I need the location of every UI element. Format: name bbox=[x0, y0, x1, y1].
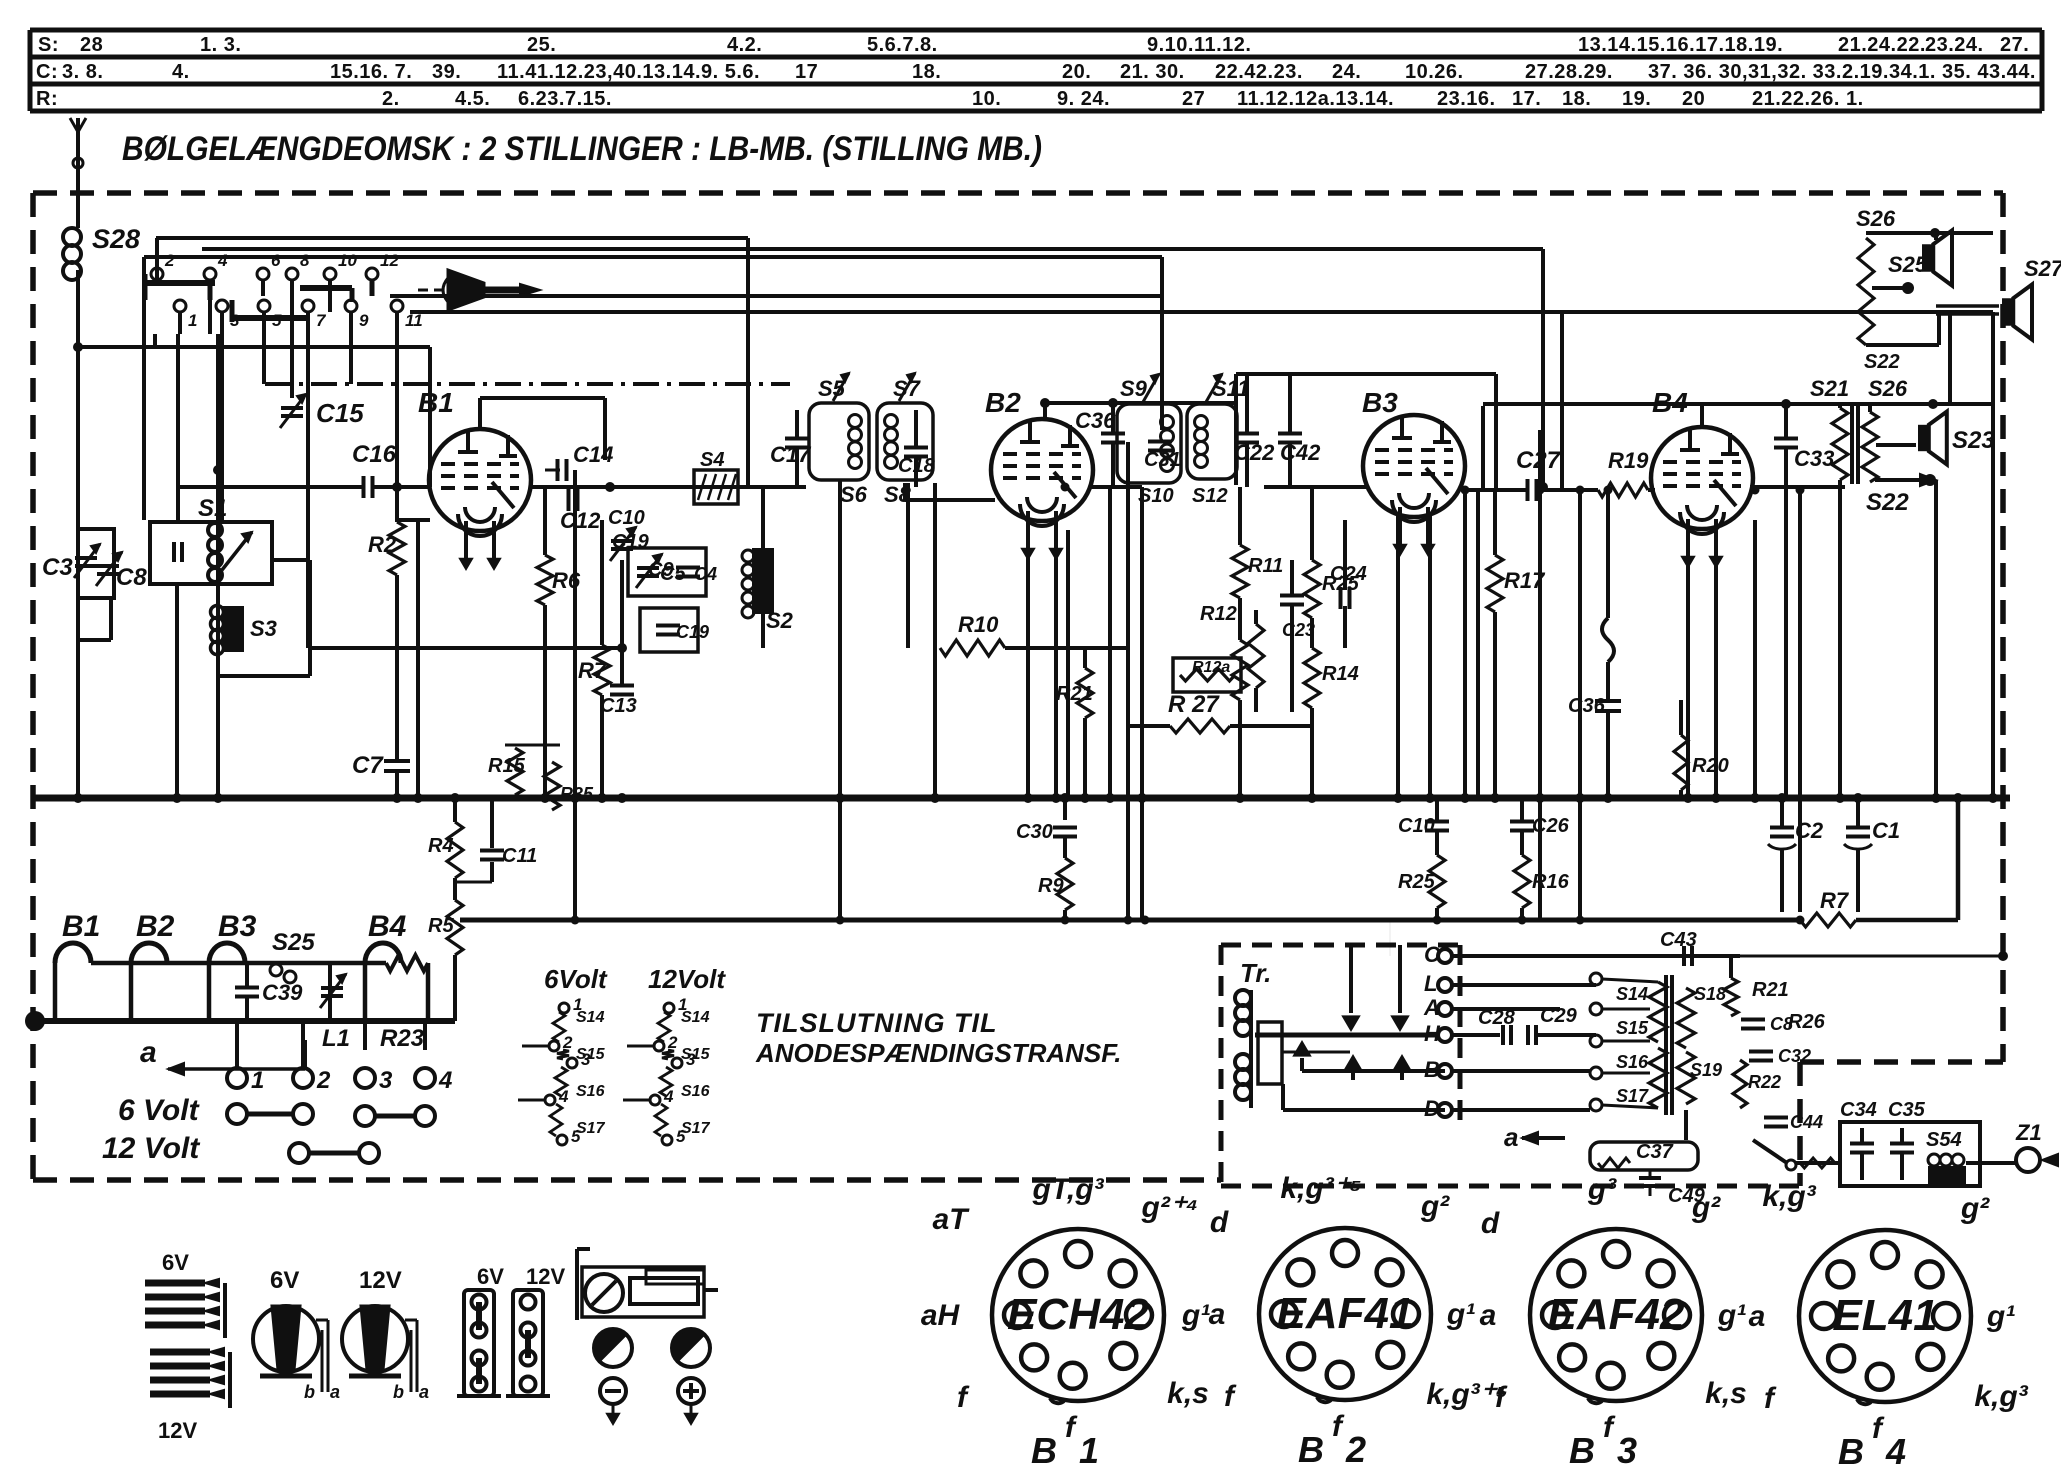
svg-text:15.16. 7.: 15.16. 7. bbox=[330, 61, 412, 83]
svg-text:20.: 20. bbox=[1062, 61, 1091, 83]
svg-text:k,g³: k,g³ bbox=[1974, 1380, 2028, 1413]
svg-text:S16: S16 bbox=[576, 1083, 605, 1100]
svg-text:C3: C3 bbox=[42, 554, 73, 581]
svg-text:a: a bbox=[330, 1382, 340, 1402]
svg-text:25.: 25. bbox=[527, 34, 556, 56]
svg-text:C31: C31 bbox=[1144, 449, 1181, 471]
svg-text:C39: C39 bbox=[262, 980, 303, 1005]
svg-text:d: d bbox=[1210, 1206, 1229, 1239]
svg-text:C12: C12 bbox=[560, 508, 601, 533]
svg-text:6: 6 bbox=[271, 251, 281, 270]
svg-text:S28: S28 bbox=[92, 224, 140, 254]
svg-text:aH: aH bbox=[921, 1299, 961, 1332]
svg-text:S16: S16 bbox=[681, 1083, 710, 1100]
svg-text:C8: C8 bbox=[116, 564, 147, 591]
svg-text:B 2: B 2 bbox=[1298, 1429, 1372, 1470]
svg-text:R7: R7 bbox=[578, 658, 608, 683]
svg-text:4.2.: 4.2. bbox=[727, 34, 762, 56]
svg-text:7: 7 bbox=[316, 311, 327, 330]
svg-text:S6: S6 bbox=[840, 482, 868, 507]
svg-text:R21: R21 bbox=[1752, 979, 1789, 1001]
svg-text:C4: C4 bbox=[694, 564, 717, 584]
svg-text:Tr.: Tr. bbox=[1240, 958, 1271, 988]
svg-text:S7: S7 bbox=[893, 376, 922, 401]
svg-text:C19: C19 bbox=[676, 622, 709, 642]
svg-text:6 Volt: 6 Volt bbox=[118, 1094, 201, 1127]
svg-text:C24: C24 bbox=[1330, 563, 1367, 585]
svg-text:21.24.22.: 21.24.22. bbox=[1838, 34, 1926, 56]
svg-text:39.: 39. bbox=[432, 61, 461, 83]
svg-text:R16: R16 bbox=[1532, 871, 1570, 893]
svg-text:S15: S15 bbox=[681, 1046, 711, 1063]
svg-text:R:: R: bbox=[36, 88, 58, 110]
svg-text:B 1: B 1 bbox=[1031, 1430, 1105, 1471]
svg-text:g²: g² bbox=[1691, 1191, 1721, 1224]
svg-text:S25: S25 bbox=[1888, 252, 1928, 277]
svg-text:R 27: R 27 bbox=[1168, 691, 1220, 718]
svg-text:B2: B2 bbox=[985, 387, 1021, 418]
svg-text:C:: C: bbox=[36, 61, 58, 83]
svg-text:S14: S14 bbox=[681, 1009, 710, 1026]
svg-text:g²: g² bbox=[1960, 1192, 1990, 1225]
svg-text:B 4: B 4 bbox=[1838, 1431, 1912, 1472]
svg-text:R12a: R12a bbox=[1192, 659, 1230, 676]
svg-text:3: 3 bbox=[379, 1067, 393, 1094]
svg-text:S9: S9 bbox=[1120, 376, 1148, 401]
svg-text:a: a bbox=[140, 1036, 157, 1069]
svg-text:B 3: B 3 bbox=[1569, 1430, 1643, 1471]
svg-text:23.24.: 23.24. bbox=[1925, 34, 1984, 56]
svg-text:R25: R25 bbox=[1398, 871, 1436, 893]
svg-text:S23: S23 bbox=[1952, 427, 1995, 454]
svg-text:C33: C33 bbox=[1794, 446, 1834, 471]
svg-text:27: 27 bbox=[1182, 88, 1205, 110]
svg-text:C32: C32 bbox=[1778, 1046, 1811, 1066]
svg-text:a: a bbox=[1749, 1300, 1766, 1333]
svg-text:R9: R9 bbox=[1038, 875, 1064, 897]
svg-text:EAF41: EAF41 bbox=[1277, 1289, 1414, 1338]
svg-text:S17: S17 bbox=[1616, 1086, 1649, 1106]
svg-text:C22: C22 bbox=[1234, 440, 1275, 465]
svg-text:11.12.12a.13.14.: 11.12.12a.13.14. bbox=[1237, 88, 1394, 110]
svg-text:C10: C10 bbox=[608, 507, 645, 529]
svg-text:20: 20 bbox=[1682, 88, 1705, 110]
svg-text:10.: 10. bbox=[972, 88, 1001, 110]
svg-text:17: 17 bbox=[795, 61, 818, 83]
svg-text:a: a bbox=[1504, 1122, 1518, 1152]
svg-text:g¹: g¹ bbox=[1717, 1299, 1746, 1332]
svg-text:R2: R2 bbox=[368, 532, 397, 557]
svg-text:k,s: k,s bbox=[1167, 1377, 1209, 1410]
svg-text:B3: B3 bbox=[1362, 387, 1398, 418]
svg-text:Z1: Z1 bbox=[2015, 1120, 2042, 1145]
svg-text:4: 4 bbox=[438, 1067, 452, 1094]
svg-text:S5: S5 bbox=[818, 376, 846, 401]
svg-text:C44: C44 bbox=[1790, 1112, 1823, 1132]
svg-text:6.23.7.15.: 6.23.7.15. bbox=[518, 88, 612, 110]
svg-text:C7: C7 bbox=[352, 752, 384, 779]
svg-text:S14: S14 bbox=[1616, 984, 1648, 1004]
svg-text:5.6.7.8.: 5.6.7.8. bbox=[867, 34, 938, 56]
svg-text:12V: 12V bbox=[526, 1264, 565, 1289]
svg-text:S17: S17 bbox=[681, 1120, 711, 1137]
svg-text:S22: S22 bbox=[1866, 489, 1909, 516]
svg-text:g³: g³ bbox=[1587, 1173, 1617, 1206]
svg-text:18.: 18. bbox=[1562, 88, 1591, 110]
svg-text:a: a bbox=[1209, 1298, 1226, 1331]
svg-text:2: 2 bbox=[316, 1067, 331, 1094]
svg-text:S:: S: bbox=[38, 34, 59, 56]
svg-text:S19: S19 bbox=[1690, 1060, 1722, 1080]
svg-text:C14: C14 bbox=[573, 442, 613, 467]
svg-text:R22: R22 bbox=[1748, 1072, 1781, 1092]
svg-text:19.: 19. bbox=[1622, 88, 1651, 110]
svg-text:C29: C29 bbox=[1540, 1005, 1578, 1027]
svg-text:17.: 17. bbox=[1512, 88, 1541, 110]
svg-text:S1: S1 bbox=[198, 495, 227, 522]
svg-text:S2: S2 bbox=[766, 608, 794, 633]
svg-text:R15: R15 bbox=[488, 755, 526, 777]
svg-text:C36: C36 bbox=[1568, 695, 1606, 717]
svg-text:R35: R35 bbox=[560, 784, 594, 804]
svg-text:4.: 4. bbox=[172, 61, 190, 83]
svg-text:3. 8.: 3. 8. bbox=[62, 61, 103, 83]
svg-text:28: 28 bbox=[80, 34, 103, 56]
svg-text:a: a bbox=[1480, 1299, 1497, 1332]
svg-text:C: C bbox=[1424, 942, 1441, 967]
svg-text:R23: R23 bbox=[380, 1025, 425, 1052]
svg-text:S11: S11 bbox=[1212, 376, 1250, 401]
svg-text:A: A bbox=[1423, 995, 1440, 1020]
svg-text:k,g³⁺⁵: k,g³⁺⁵ bbox=[1280, 1172, 1361, 1205]
svg-text:EL41: EL41 bbox=[1832, 1291, 1937, 1340]
svg-text:g²: g² bbox=[1420, 1190, 1450, 1223]
svg-text:C10: C10 bbox=[1398, 815, 1435, 837]
svg-text:C30: C30 bbox=[1016, 821, 1053, 843]
svg-text:S15: S15 bbox=[576, 1046, 606, 1063]
svg-text:18.: 18. bbox=[912, 61, 941, 83]
svg-text:BØLGELÆNGDEOMSK : 2 STILLINGE: BØLGELÆNGDEOMSK : 2 STILLINGER : LB-MB. … bbox=[122, 130, 1042, 168]
svg-text:b: b bbox=[304, 1382, 315, 1402]
svg-text:9. 24.: 9. 24. bbox=[1057, 88, 1110, 110]
svg-text:g¹: g¹ bbox=[1181, 1299, 1210, 1332]
svg-text:C26: C26 bbox=[1532, 815, 1570, 837]
svg-text:27.: 27. bbox=[2000, 34, 2029, 56]
svg-text:S22: S22 bbox=[1864, 351, 1900, 373]
svg-text:12V: 12V bbox=[158, 1418, 197, 1443]
svg-text:S54: S54 bbox=[1926, 1129, 1962, 1151]
svg-text:4.5.: 4.5. bbox=[455, 88, 490, 110]
svg-text:L: L bbox=[1424, 971, 1437, 996]
svg-text:R10: R10 bbox=[958, 612, 999, 637]
svg-text:B2: B2 bbox=[136, 910, 175, 943]
svg-text:C42: C42 bbox=[1280, 440, 1321, 465]
svg-text:S17: S17 bbox=[576, 1120, 606, 1137]
svg-text:S25: S25 bbox=[272, 929, 315, 956]
svg-text:B1: B1 bbox=[62, 910, 100, 943]
svg-text:2.: 2. bbox=[382, 88, 400, 110]
svg-text:L1: L1 bbox=[322, 1025, 350, 1052]
svg-text:24.: 24. bbox=[1332, 61, 1361, 83]
svg-text:S15: S15 bbox=[1616, 1018, 1649, 1038]
svg-text:2: 2 bbox=[562, 1033, 573, 1052]
svg-text:2: 2 bbox=[164, 251, 175, 270]
svg-text:13.14.15.16.17.18.19.: 13.14.15.16.17.18.19. bbox=[1578, 34, 1783, 56]
svg-text:21.22.26. 1.: 21.22.26. 1. bbox=[1752, 88, 1864, 110]
svg-text:4: 4 bbox=[558, 1087, 569, 1106]
svg-text:C13: C13 bbox=[600, 695, 637, 717]
svg-text:aT: aT bbox=[932, 1203, 970, 1236]
svg-text:C35: C35 bbox=[1888, 1099, 1926, 1121]
svg-text:C36: C36 bbox=[1075, 408, 1116, 433]
svg-text:12V: 12V bbox=[359, 1267, 402, 1294]
svg-text:S21: S21 bbox=[1810, 376, 1849, 401]
svg-text:4: 4 bbox=[663, 1087, 674, 1106]
svg-text:g²⁺⁴: g²⁺⁴ bbox=[1141, 1191, 1199, 1224]
svg-text:R12: R12 bbox=[1200, 603, 1237, 625]
svg-text:S16: S16 bbox=[1616, 1052, 1649, 1072]
svg-text:R14: R14 bbox=[1322, 663, 1359, 685]
svg-text:R5: R5 bbox=[428, 915, 454, 937]
svg-text:27.28.29.: 27.28.29. bbox=[1525, 61, 1613, 83]
svg-text:S26: S26 bbox=[1856, 206, 1896, 231]
svg-text:6V: 6V bbox=[477, 1264, 504, 1289]
svg-text:R4: R4 bbox=[428, 835, 454, 857]
svg-text:C1: C1 bbox=[1872, 818, 1900, 843]
svg-text:gT,g³: gT,g³ bbox=[1031, 1173, 1104, 1206]
svg-text:21. 30.: 21. 30. bbox=[1120, 61, 1185, 83]
svg-text:2: 2 bbox=[667, 1033, 678, 1052]
svg-text:1: 1 bbox=[251, 1067, 264, 1094]
svg-text:37. 36. 30,31,32. 33.2.19.34.1: 37. 36. 30,31,32. 33.2.19.34.1. 35. 43.4… bbox=[1648, 61, 2036, 83]
svg-text:d: d bbox=[1481, 1207, 1500, 1240]
svg-text:B1: B1 bbox=[418, 387, 454, 418]
svg-text:12 Volt: 12 Volt bbox=[102, 1132, 201, 1165]
svg-text:TILSLUTNING TIL: TILSLUTNING TIL bbox=[756, 1008, 997, 1038]
svg-text:ECH42: ECH42 bbox=[1007, 1290, 1149, 1339]
svg-text:S4: S4 bbox=[700, 449, 724, 471]
svg-text:10: 10 bbox=[338, 251, 357, 270]
svg-text:9.10.11.12.: 9.10.11.12. bbox=[1147, 34, 1251, 56]
svg-text:C16: C16 bbox=[352, 441, 397, 468]
svg-text:C15: C15 bbox=[316, 398, 364, 428]
svg-text:12Volt: 12Volt bbox=[648, 964, 726, 994]
svg-text:R20: R20 bbox=[1692, 755, 1729, 777]
svg-text:S12: S12 bbox=[1192, 485, 1228, 507]
svg-text:8: 8 bbox=[300, 251, 310, 270]
svg-text:R26: R26 bbox=[1788, 1011, 1826, 1033]
svg-text:C9: C9 bbox=[648, 559, 674, 581]
svg-text:B4: B4 bbox=[368, 910, 407, 943]
svg-text:C17: C17 bbox=[770, 442, 812, 467]
svg-text:EAF42: EAF42 bbox=[1548, 1290, 1685, 1339]
svg-text:B3: B3 bbox=[218, 910, 257, 943]
svg-text:S3: S3 bbox=[250, 616, 277, 641]
svg-text:S26: S26 bbox=[1868, 376, 1908, 401]
svg-text:C37: C37 bbox=[1636, 1141, 1674, 1163]
svg-text:ANODESPÆNDINGSTRANSF.: ANODESPÆNDINGSTRANSF. bbox=[755, 1038, 1121, 1068]
svg-text:11.41.12.23,40.13.14.9. 5.6.: 11.41.12.23,40.13.14.9. 5.6. bbox=[497, 61, 760, 83]
svg-text:6V: 6V bbox=[162, 1250, 189, 1275]
svg-text:C34: C34 bbox=[1840, 1099, 1877, 1121]
svg-text:1: 1 bbox=[188, 311, 197, 330]
svg-text:6V: 6V bbox=[270, 1267, 299, 1294]
svg-text:C2: C2 bbox=[1795, 818, 1824, 843]
svg-text:k,s: k,s bbox=[1705, 1377, 1747, 1410]
svg-text:10.26.: 10.26. bbox=[1405, 61, 1464, 83]
svg-text:b: b bbox=[393, 1382, 404, 1402]
svg-text:22.42.23.: 22.42.23. bbox=[1215, 61, 1303, 83]
svg-text:C11: C11 bbox=[502, 845, 537, 867]
svg-text:R7: R7 bbox=[1820, 888, 1850, 913]
svg-text:S14: S14 bbox=[576, 1009, 605, 1026]
svg-text:R19: R19 bbox=[1608, 448, 1649, 473]
svg-text:S18: S18 bbox=[1694, 984, 1726, 1004]
svg-text:23.16.: 23.16. bbox=[1437, 88, 1496, 110]
svg-text:12: 12 bbox=[380, 251, 399, 270]
svg-text:R11: R11 bbox=[1248, 555, 1283, 577]
svg-text:R21: R21 bbox=[1056, 683, 1093, 705]
svg-text:C28: C28 bbox=[1478, 1007, 1516, 1029]
svg-text:g¹: g¹ bbox=[1446, 1298, 1475, 1331]
svg-text:a: a bbox=[419, 1382, 429, 1402]
svg-text:1. 3.: 1. 3. bbox=[200, 34, 241, 56]
svg-text:9: 9 bbox=[359, 311, 369, 330]
svg-text:k,g³: k,g³ bbox=[1762, 1180, 1816, 1213]
svg-text:6Volt: 6Volt bbox=[544, 964, 608, 994]
svg-text:g¹: g¹ bbox=[1986, 1300, 2015, 1333]
svg-text:4: 4 bbox=[217, 251, 228, 270]
svg-text:S27: S27 bbox=[2024, 256, 2061, 281]
